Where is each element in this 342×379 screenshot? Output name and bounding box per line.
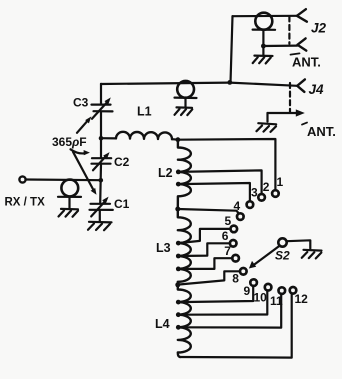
terminal 4 (237, 213, 244, 220)
terminal 9 (250, 279, 257, 286)
svg-text:C2: C2 (114, 155, 130, 169)
svg-text:C1: C1 (114, 197, 130, 211)
wire C3 to C2 (100, 111, 102, 158)
svg-text:10: 10 (254, 291, 268, 305)
terminal 10 (265, 284, 272, 291)
svg-text:4: 4 (234, 199, 241, 213)
ground (ANT lower) (257, 123, 277, 132)
svg-text:L1: L1 (137, 105, 152, 119)
node tap 5 junction (176, 241, 181, 246)
terminal 3 (247, 201, 254, 208)
wire S2 to ground (287, 240, 311, 248)
wire J2 feed (233, 15, 297, 18)
fork ANT upper (297, 38, 306, 50)
wire RX/TX input to capacitor column (26, 178, 101, 181)
wire tap 3 (178, 183, 250, 201)
inductor L3 (178, 209, 191, 285)
node tap 7 junction (176, 267, 181, 272)
terminal 7 (232, 255, 239, 262)
arrow 365pF to C1 (73, 152, 97, 195)
terminal 12 (290, 287, 297, 294)
node tap 11 junction (176, 325, 181, 330)
svg-text:8: 8 (232, 272, 239, 286)
svg-text:9: 9 (244, 284, 251, 298)
node tap 3 junction (176, 182, 181, 187)
inductor L2 (178, 140, 191, 209)
terminal 8 (240, 268, 247, 275)
svg-text:RX / TX: RX / TX (5, 197, 46, 209)
node tap 2 junction (176, 170, 181, 175)
terminal RX/TX input (19, 176, 25, 182)
connector J2 (coax) (253, 13, 276, 55)
svg-text:5: 5 (225, 214, 232, 228)
capacitor C3 (variable) (92, 97, 113, 118)
wire J4 rail (230, 83, 297, 86)
terminal 1 (272, 190, 279, 197)
wire L1 left lead (101, 137, 116, 139)
connector J1 (RX/TX coax) (58, 180, 81, 209)
node L1 branch junction (99, 136, 104, 141)
wire tap 5 (178, 229, 230, 243)
terminal 6 (230, 240, 237, 247)
node RX/TX junction (99, 178, 104, 183)
node J2 stem branch (261, 44, 266, 49)
wire tap 10 (178, 291, 267, 315)
node L3/L4 junction (175, 282, 180, 287)
wire ANT arrow line (268, 112, 300, 114)
wire capacitor column (top corner down to C3) (100, 84, 102, 105)
wire C2 to C1 (99, 164, 102, 204)
svg-text:S2: S2 (275, 249, 290, 263)
tick above ANT upper (291, 53, 300, 54)
svg-text:J2: J2 (311, 21, 327, 36)
wire tap 7 (178, 258, 232, 269)
wire tap 1 (178, 139, 276, 190)
svg-text:C3: C3 (73, 96, 89, 110)
fork J2 output (297, 9, 307, 22)
node tap 6 junction (176, 254, 181, 259)
wire tap 12 (bottom rail) (180, 294, 292, 358)
svg-text:ANT.: ANT. (292, 55, 321, 70)
switch S2 wiper arrow (254, 246, 280, 265)
wire tap 2 (178, 170, 261, 194)
arrow 365pF to C3 (77, 116, 91, 132)
fork J4 output (297, 79, 305, 92)
svg-text:7: 7 (224, 244, 231, 258)
ground (under J3) (175, 107, 193, 115)
wire top rail (101, 83, 230, 84)
wire C1 to ground (99, 210, 101, 222)
svg-text:J4: J4 (309, 82, 325, 97)
wire tap 8 (178, 271, 240, 284)
svg-text:L2: L2 (158, 166, 173, 180)
svg-text:ANT.: ANT. (307, 124, 336, 139)
svg-text:1: 1 (277, 175, 284, 189)
arrowhead ANT lower (296, 109, 305, 116)
arrow 365pF to C2 (71, 149, 90, 155)
svg-text:3: 3 (251, 186, 258, 200)
wire J2 stem branch to ANT fork (263, 44, 297, 47)
wire tap 6 (178, 243, 230, 256)
svg-text:12: 12 (295, 292, 309, 306)
wire L1 right lead (172, 138, 178, 141)
node top rail to J2 branch (227, 80, 232, 85)
connector J3 (coax on top rail) (175, 81, 197, 107)
wire riser to J2 (231, 16, 233, 82)
terminal 11 (279, 287, 286, 294)
ground (under C1) (88, 222, 112, 230)
svg-text:L4: L4 (155, 317, 170, 331)
capacitor C1 (variable) (90, 197, 113, 217)
wire tap 11 (178, 294, 281, 328)
terminal 2 (258, 194, 265, 201)
tick before ANT lower (302, 123, 307, 125)
ground (S2) (302, 250, 322, 259)
ground (under J1) (59, 209, 79, 217)
wire dashed J2 to ANT fork (288, 16, 290, 43)
svg-text:L3: L3 (156, 241, 171, 255)
node tap 10 junction (176, 312, 181, 317)
inductor L1 (116, 132, 172, 139)
svg-text:6: 6 (222, 229, 229, 243)
node L1/L2/tap1 junction (176, 137, 181, 142)
switch S2 pivot (278, 238, 286, 246)
node tap 9 junction (176, 300, 181, 305)
inductor L4 (178, 285, 191, 357)
svg-text:2: 2 (263, 180, 270, 194)
terminal 5 (231, 226, 238, 233)
node L2/L3 junction (175, 207, 180, 212)
wire tap 4 (178, 209, 239, 214)
capacitor C2 (variable) (92, 152, 112, 170)
svg-text:365ρF: 365ρF (52, 135, 87, 149)
ground (under J2) (253, 56, 273, 64)
svg-text:11: 11 (270, 294, 283, 308)
wire dashed J4 to ANT arrow (289, 83, 291, 113)
arrowhead S2 wiper (249, 261, 256, 269)
wire tap 9 (178, 286, 253, 302)
wire elbow to ground (266, 113, 268, 122)
